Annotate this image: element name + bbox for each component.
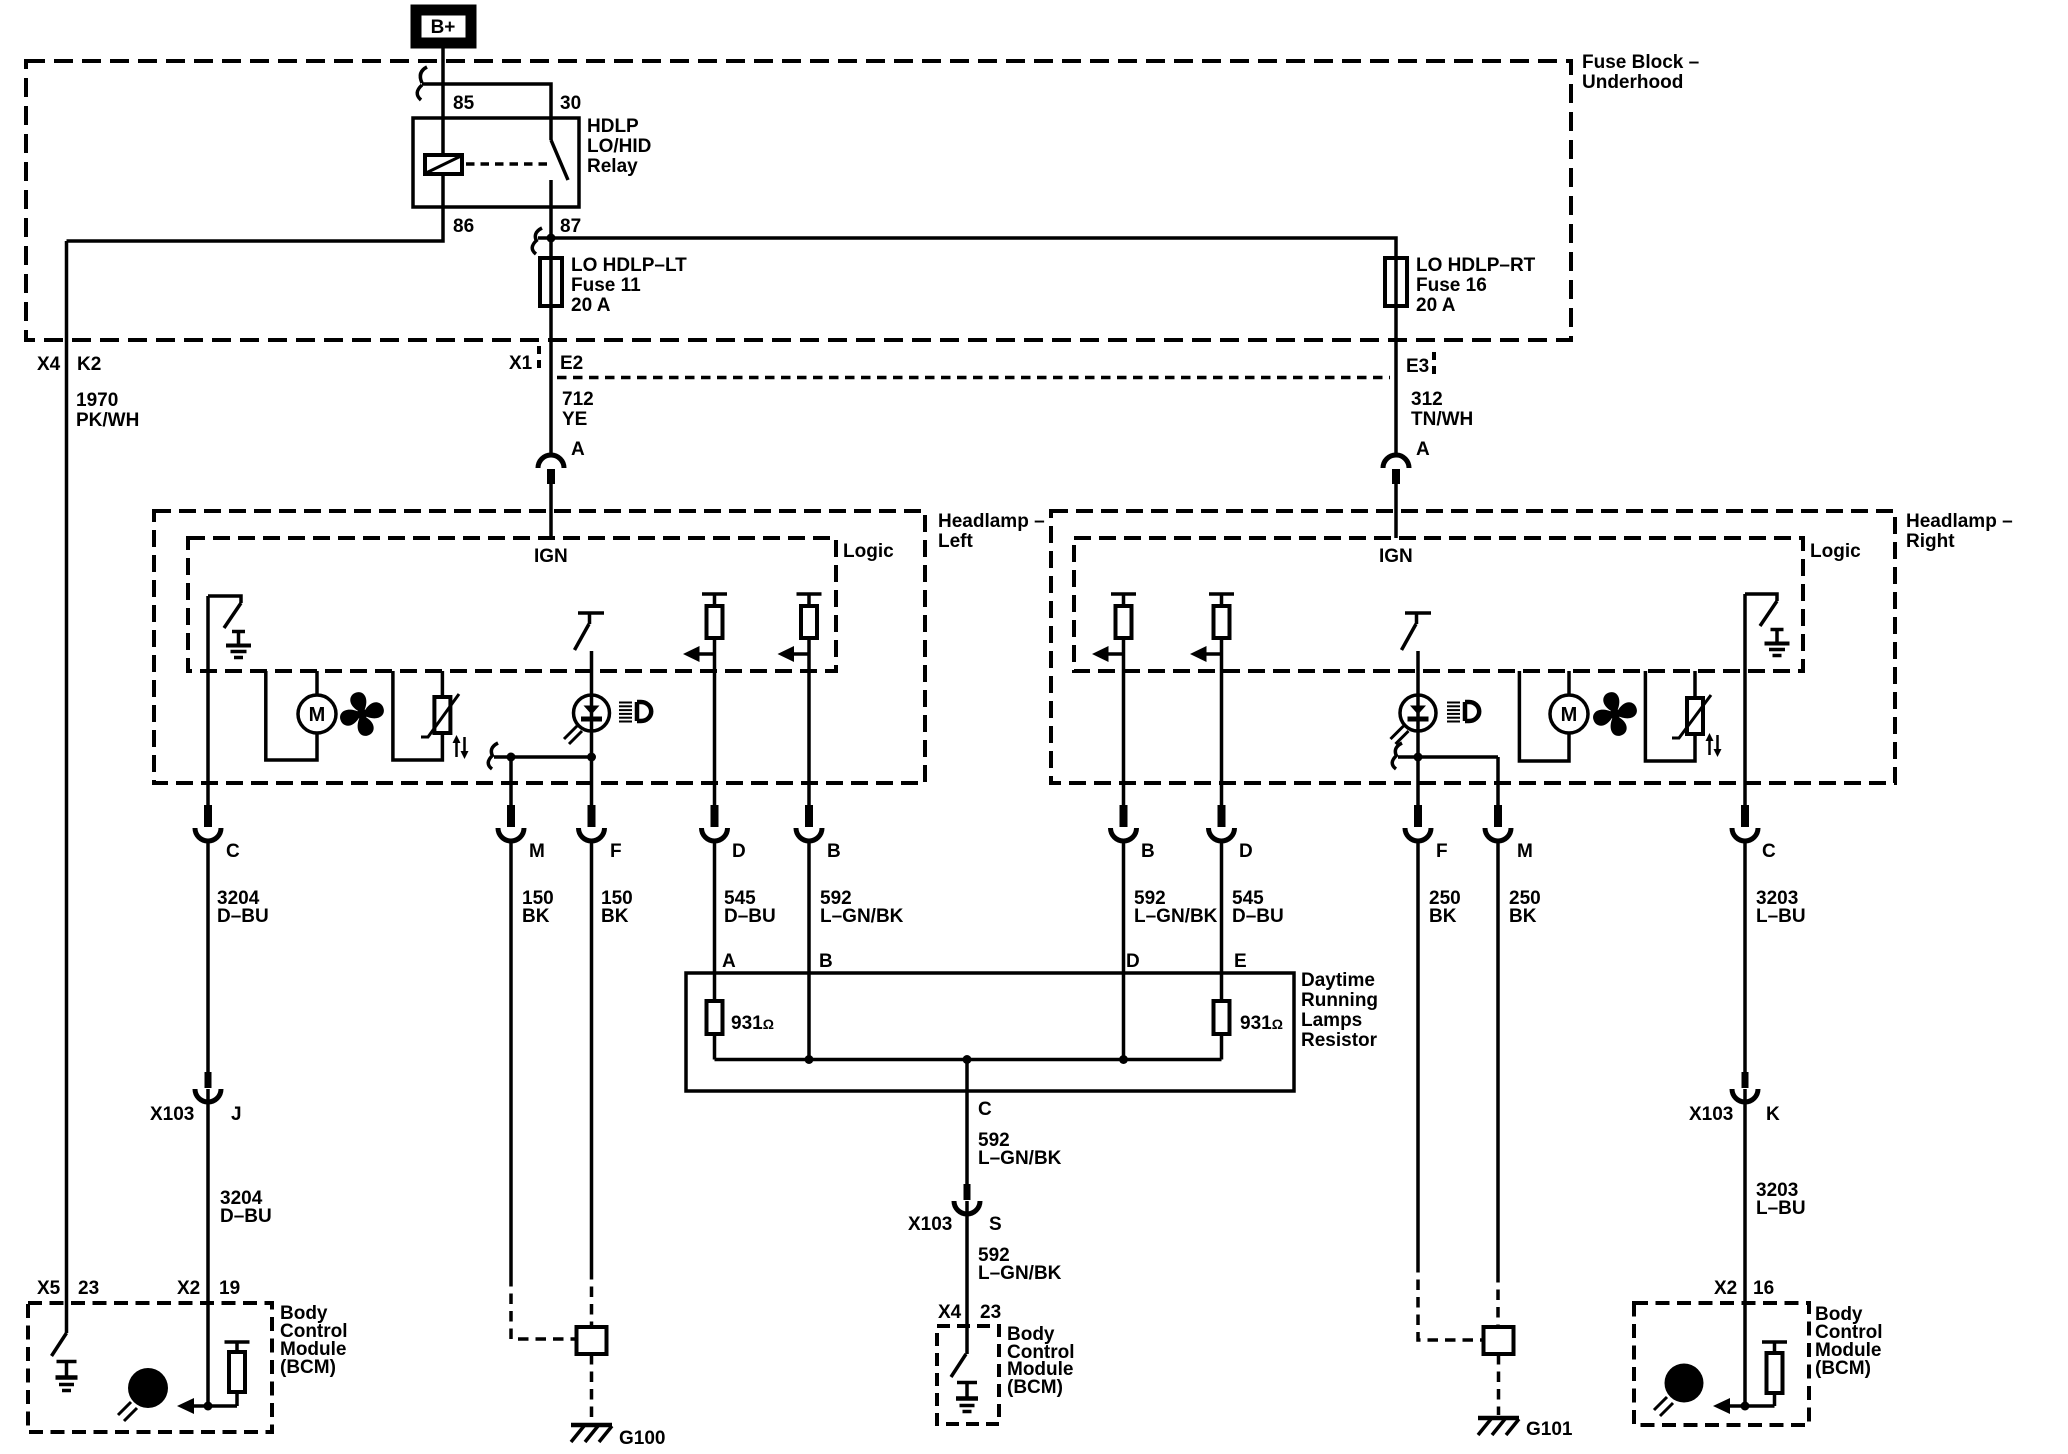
BCM left ground <box>56 1362 78 1391</box>
wire through fuse 11 <box>549 258 553 306</box>
splice pack square G100 <box>577 1327 607 1354</box>
wire to IGN right <box>1394 484 1398 538</box>
svg-text:86: 86 <box>453 216 474 237</box>
wire relay pin 86 <box>67 174 444 241</box>
dashed drop to G101 <box>1497 1354 1501 1415</box>
wire 545 D left down <box>713 842 717 1001</box>
svg-text:Headlamp –: Headlamp – <box>1906 511 2013 532</box>
fuse 11 LO HDLP-LT <box>540 258 562 306</box>
BCM left indicator lamp <box>128 1368 168 1408</box>
svg-text:L–BU: L–BU <box>1756 906 1806 927</box>
wire lamp right <box>1416 651 1420 805</box>
svg-text:HDLP: HDLP <box>587 116 639 137</box>
in-line connector A left <box>538 455 564 484</box>
left D arrow <box>683 646 715 662</box>
svg-text:C: C <box>226 841 240 862</box>
wire low-beam C right <box>1743 594 1747 805</box>
wire 592 B right <box>1122 638 1126 805</box>
thermistor left diagonal <box>421 694 459 737</box>
junction DRL D <box>1119 1055 1128 1064</box>
wire 87 to right fuse <box>551 238 1396 258</box>
svg-text:L–GN/BK: L–GN/BK <box>820 906 904 927</box>
wire 250 BK F right <box>1416 842 1420 1262</box>
connector M left <box>498 805 524 841</box>
connector X103 S <box>954 1184 980 1214</box>
stub to hook <box>538 236 551 240</box>
svg-text:(BCM): (BCM) <box>1815 1358 1871 1379</box>
BCM right resistor <box>1762 1342 1787 1406</box>
svg-text:931Ω: 931Ω <box>731 1013 774 1034</box>
svg-text:X2: X2 <box>1714 1278 1737 1299</box>
right high-beam resistor D <box>1209 594 1234 638</box>
svg-text:K: K <box>1766 1104 1780 1125</box>
right high-beam resistor B <box>1111 594 1136 638</box>
svg-text:Fuse Block –: Fuse Block – <box>1582 52 1699 73</box>
logic right dashed box <box>1074 538 1803 671</box>
svg-text:M: M <box>529 841 545 862</box>
svg-text:712: 712 <box>562 389 594 410</box>
left headlamp switch blade <box>575 624 590 650</box>
left headlamp switch contact <box>578 613 604 624</box>
svg-text:S: S <box>989 1214 1002 1235</box>
BCM left switch blade <box>52 1333 67 1356</box>
wire M right drop <box>1496 757 1500 805</box>
svg-text:X103: X103 <box>908 1214 952 1235</box>
headlamp right dashed box <box>1051 511 1895 783</box>
svg-text:BK: BK <box>522 906 550 927</box>
svg-text:LO HDLP–RT: LO HDLP–RT <box>1416 255 1536 276</box>
fan left <box>333 685 391 743</box>
svg-text:Resistor: Resistor <box>1301 1030 1378 1051</box>
wire 592 B left down <box>807 842 811 1060</box>
right thermistor top lead <box>1693 671 1697 698</box>
svg-text:D–BU: D–BU <box>724 906 776 927</box>
wire 545 D right <box>1220 638 1224 805</box>
wire 3203 L-BU upper <box>1743 842 1747 1072</box>
BCM left resistor <box>225 1342 250 1406</box>
X1 connector right end mark <box>1432 352 1436 380</box>
left high-beam resistor D <box>702 594 727 638</box>
svg-text:16: 16 <box>1753 1278 1774 1299</box>
svg-text:X103: X103 <box>150 1104 194 1125</box>
left thermistor loop <box>393 671 443 760</box>
right motor top lead <box>1567 671 1571 695</box>
wire 3203 L-BU lower <box>1743 1089 1747 1406</box>
junction DRL C <box>963 1055 972 1064</box>
wire 250 BK F right dashed <box>1418 1262 1484 1340</box>
svg-text:23: 23 <box>980 1302 1001 1323</box>
left headlamp motor loop <box>266 671 317 760</box>
wire 1970 PK/WH drop <box>65 241 69 1333</box>
B+ battery terminal <box>412 6 475 47</box>
svg-text:Underhood: Underhood <box>1582 72 1683 93</box>
right logic ground <box>1765 630 1790 656</box>
junction DRL B <box>805 1055 814 1064</box>
svg-text:Running: Running <box>1301 990 1378 1011</box>
svg-text:B+: B+ <box>431 17 456 38</box>
right headlamp switch blade <box>1402 624 1417 650</box>
splice pack square G101 <box>1484 1327 1514 1354</box>
splice hook right lamp <box>1392 743 1402 769</box>
connector C left <box>195 805 221 841</box>
splice hook at relay feed <box>417 67 427 100</box>
BCM left driver arrow <box>177 1398 237 1414</box>
svg-text:D–BU: D–BU <box>220 1206 272 1227</box>
BCM right dashed box <box>1634 1303 1809 1425</box>
svg-text:X103: X103 <box>1689 1104 1733 1125</box>
svg-text:Left: Left <box>938 531 974 552</box>
svg-text:Logic: Logic <box>1810 541 1861 562</box>
junction BCM right <box>1741 1402 1750 1411</box>
svg-text:G101: G101 <box>1526 1419 1573 1440</box>
junction M left <box>507 753 516 762</box>
left motor top lead <box>315 671 319 695</box>
lamp bulb left <box>574 695 610 731</box>
wire through fuse 16 <box>1394 258 1398 306</box>
splice hook at pin 87 <box>532 228 542 254</box>
svg-text:J: J <box>231 1104 242 1125</box>
junction pin 87 <box>547 234 556 243</box>
wire feed to pin 30 <box>422 84 551 118</box>
svg-text:B: B <box>1141 841 1155 862</box>
daytime running lamps resistor box <box>686 973 1294 1091</box>
lamp right slashes <box>1391 726 1409 744</box>
svg-text:D–BU: D–BU <box>1232 906 1284 927</box>
right headlamp switch contact <box>1405 613 1431 624</box>
junction F right <box>1414 753 1423 762</box>
right D arrow <box>1190 646 1222 662</box>
svg-text:20 A: 20 A <box>1416 295 1456 316</box>
right logic ground switch bar <box>1745 594 1777 601</box>
X1 connector left end mark <box>537 346 541 374</box>
svg-text:D–BU: D–BU <box>217 906 269 927</box>
BCM left lamp slashes <box>118 1402 137 1421</box>
thermistor right arrows <box>1706 733 1722 757</box>
svg-text:E2: E2 <box>560 353 583 374</box>
svg-text:Relay: Relay <box>587 156 638 177</box>
wire 150 BK F left dashed <box>590 1269 594 1327</box>
svg-text:X1: X1 <box>509 353 533 374</box>
svg-text:931Ω: 931Ω <box>1240 1013 1283 1034</box>
svg-text:E: E <box>1234 951 1247 972</box>
right logic ground switch blade <box>1760 601 1777 626</box>
svg-text:Fuse 11: Fuse 11 <box>571 275 641 296</box>
wire 250 BK M right dashed <box>1496 1272 1500 1327</box>
wire 545 D right down <box>1220 842 1224 1001</box>
fuse 16 LO HDLP-RT <box>1385 258 1407 306</box>
svg-text:LO HDLP–LT: LO HDLP–LT <box>571 255 687 276</box>
connector X103 K <box>1732 1072 1758 1102</box>
ground G101 <box>1478 1418 1519 1435</box>
svg-text:L–GN/BK: L–GN/BK <box>1134 906 1218 927</box>
DRL bus <box>715 1058 1222 1062</box>
wire 3204 D-BU upper <box>206 842 210 1072</box>
beam icon left hatch <box>619 703 632 722</box>
wire 150 BK M left <box>509 842 513 1276</box>
svg-text:M: M <box>1561 704 1578 726</box>
DRL E lower lead <box>1220 1034 1224 1060</box>
thermistor right diagonal <box>1672 695 1711 738</box>
svg-text:IGN: IGN <box>534 546 568 567</box>
right thermistor loop <box>1645 671 1695 761</box>
lamp left slashes <box>564 726 582 744</box>
svg-text:PK/WH: PK/WH <box>76 410 139 431</box>
svg-text:Headlamp –: Headlamp – <box>938 511 1045 532</box>
svg-text:C: C <box>978 1099 992 1120</box>
wire 712 YE <box>549 306 553 455</box>
thermistor right body <box>1687 698 1703 734</box>
svg-text:M: M <box>1517 841 1533 862</box>
svg-text:87: 87 <box>560 216 581 237</box>
svg-text:312: 312 <box>1411 389 1443 410</box>
BCM left dashed box <box>28 1303 272 1432</box>
wire 3204 D-BU lower <box>206 1089 210 1406</box>
svg-text:B: B <box>827 841 841 862</box>
svg-text:X2: X2 <box>177 1278 200 1299</box>
wire lamp left <box>590 651 594 805</box>
svg-text:M: M <box>309 704 326 726</box>
wire to IGN left <box>549 484 553 538</box>
thermistor left arrows <box>453 735 469 759</box>
wire 150 BK M left dashed <box>511 1276 576 1339</box>
svg-text:85: 85 <box>453 93 475 114</box>
svg-text:Fuse 16: Fuse 16 <box>1416 275 1487 296</box>
relay pin 87 stub <box>549 180 553 207</box>
right B arrow <box>1092 646 1124 662</box>
svg-text:Right: Right <box>1906 531 1955 552</box>
in-line connector A right <box>1383 455 1409 484</box>
lamp right filament <box>1408 706 1429 722</box>
connector D right <box>1209 805 1235 841</box>
connector M right <box>1485 805 1511 841</box>
BCM middle dashed box <box>937 1326 999 1424</box>
svg-text:19: 19 <box>219 1278 240 1299</box>
svg-text:BK: BK <box>1429 906 1457 927</box>
svg-text:BK: BK <box>1509 906 1537 927</box>
svg-text:Daytime: Daytime <box>1301 970 1375 991</box>
svg-text:(BCM): (BCM) <box>1007 1377 1063 1398</box>
svg-text:30: 30 <box>560 93 581 114</box>
svg-text:LO/HID: LO/HID <box>587 136 651 157</box>
relay switch blade <box>551 140 568 180</box>
splice hook left lamp <box>488 743 498 769</box>
beam icon right D <box>1465 702 1479 721</box>
lamp left filament <box>581 706 602 722</box>
svg-text:E3: E3 <box>1406 356 1429 377</box>
lamp left to M/F link <box>494 755 592 759</box>
wire 592 to X4 23 <box>965 1201 969 1354</box>
wire low-beam C left <box>206 596 210 805</box>
fan right <box>1586 685 1644 743</box>
svg-text:G100: G100 <box>619 1428 665 1449</box>
svg-text:Logic: Logic <box>843 541 894 562</box>
svg-text:D: D <box>1126 951 1140 972</box>
connector C right <box>1732 805 1758 841</box>
wire 250 BK M right <box>1496 842 1500 1272</box>
connector F left <box>579 805 605 841</box>
BCM middle ground <box>956 1383 978 1412</box>
connector B left <box>796 805 822 841</box>
left B arrow <box>778 646 810 662</box>
headlamp left dashed box <box>154 511 925 783</box>
svg-text:20 A: 20 A <box>571 295 611 316</box>
motor M right <box>1550 695 1588 733</box>
logic left dashed box <box>188 538 836 671</box>
wire relay pin 87 down <box>549 207 553 258</box>
svg-text:C: C <box>1762 841 1776 862</box>
svg-text:D: D <box>732 841 746 862</box>
wire 592 B left <box>807 638 811 805</box>
svg-text:A: A <box>571 439 585 460</box>
beam icon right hatch <box>1447 703 1460 722</box>
svg-text:D: D <box>1239 841 1253 862</box>
lamp right to M link <box>1398 755 1498 759</box>
dashed drop to G100 <box>590 1354 594 1422</box>
DRL resistor A <box>707 1001 723 1034</box>
beam icon left D <box>637 702 651 721</box>
DRL A lower lead <box>713 1034 717 1060</box>
left logic ground switch bar <box>208 596 241 603</box>
BCM middle switch blade <box>951 1354 966 1377</box>
svg-text:F: F <box>610 841 622 862</box>
junction BCM left <box>204 1402 213 1411</box>
ground G100 <box>571 1425 612 1442</box>
svg-text:B: B <box>819 951 833 972</box>
svg-text:(BCM): (BCM) <box>280 1357 336 1378</box>
svg-text:L–BU: L–BU <box>1756 1198 1806 1219</box>
svg-text:X5: X5 <box>37 1278 61 1299</box>
wire M left drop <box>509 757 513 805</box>
left logic ground switch blade <box>224 603 241 628</box>
thermistor left body <box>434 697 450 733</box>
left thermistor top lead <box>441 671 445 697</box>
svg-text:1970: 1970 <box>76 390 118 411</box>
wire 545 D left <box>713 638 717 805</box>
relay coil <box>425 155 462 174</box>
right headlamp motor loop <box>1519 671 1569 761</box>
svg-text:L–GN/BK: L–GN/BK <box>978 1148 1062 1169</box>
svg-text:L–GN/BK: L–GN/BK <box>978 1263 1062 1284</box>
svg-text:F: F <box>1436 841 1448 862</box>
junction F left <box>587 753 596 762</box>
left logic ground <box>226 632 251 658</box>
wire 150 BK F left <box>590 842 594 1269</box>
motor M left <box>298 695 336 733</box>
svg-text:A: A <box>1416 439 1430 460</box>
fuse block - underhood dashed box <box>26 61 1571 340</box>
BCM right driver arrow <box>1713 1398 1775 1414</box>
wire B+ to relay pin 85 <box>441 47 445 155</box>
relay coil-switch dashed link <box>466 162 549 166</box>
wire 592 B right down <box>1122 842 1126 1060</box>
svg-text:K2: K2 <box>77 354 101 375</box>
lamp bulb right <box>1400 695 1436 731</box>
DRL resistor E <box>1214 1001 1230 1034</box>
svg-text:A: A <box>722 951 736 972</box>
X1 connector lower dashed line <box>557 376 1390 380</box>
svg-text:X4: X4 <box>938 1302 962 1323</box>
BCM right lamp slashes <box>1654 1397 1673 1416</box>
relay switch pin30 stub <box>549 118 553 140</box>
connector F right <box>1405 805 1431 841</box>
BCM right indicator lamp <box>1665 1364 1704 1403</box>
left high-beam resistor B <box>797 594 822 638</box>
svg-text:YE: YE <box>562 409 587 430</box>
svg-text:X4: X4 <box>37 354 61 375</box>
svg-text:IGN: IGN <box>1379 546 1413 567</box>
wire 592 C drop <box>965 1060 969 1185</box>
relay HDLP LO/HID box <box>413 118 579 207</box>
svg-text:23: 23 <box>78 1278 99 1299</box>
connector X103 J <box>195 1072 221 1102</box>
wire 312 TN/WH <box>1394 306 1398 455</box>
connector B right <box>1111 805 1137 841</box>
svg-text:Lamps: Lamps <box>1301 1010 1362 1031</box>
svg-text:BK: BK <box>601 906 629 927</box>
svg-text:TN/WH: TN/WH <box>1411 409 1473 430</box>
connector D left <box>702 805 728 841</box>
